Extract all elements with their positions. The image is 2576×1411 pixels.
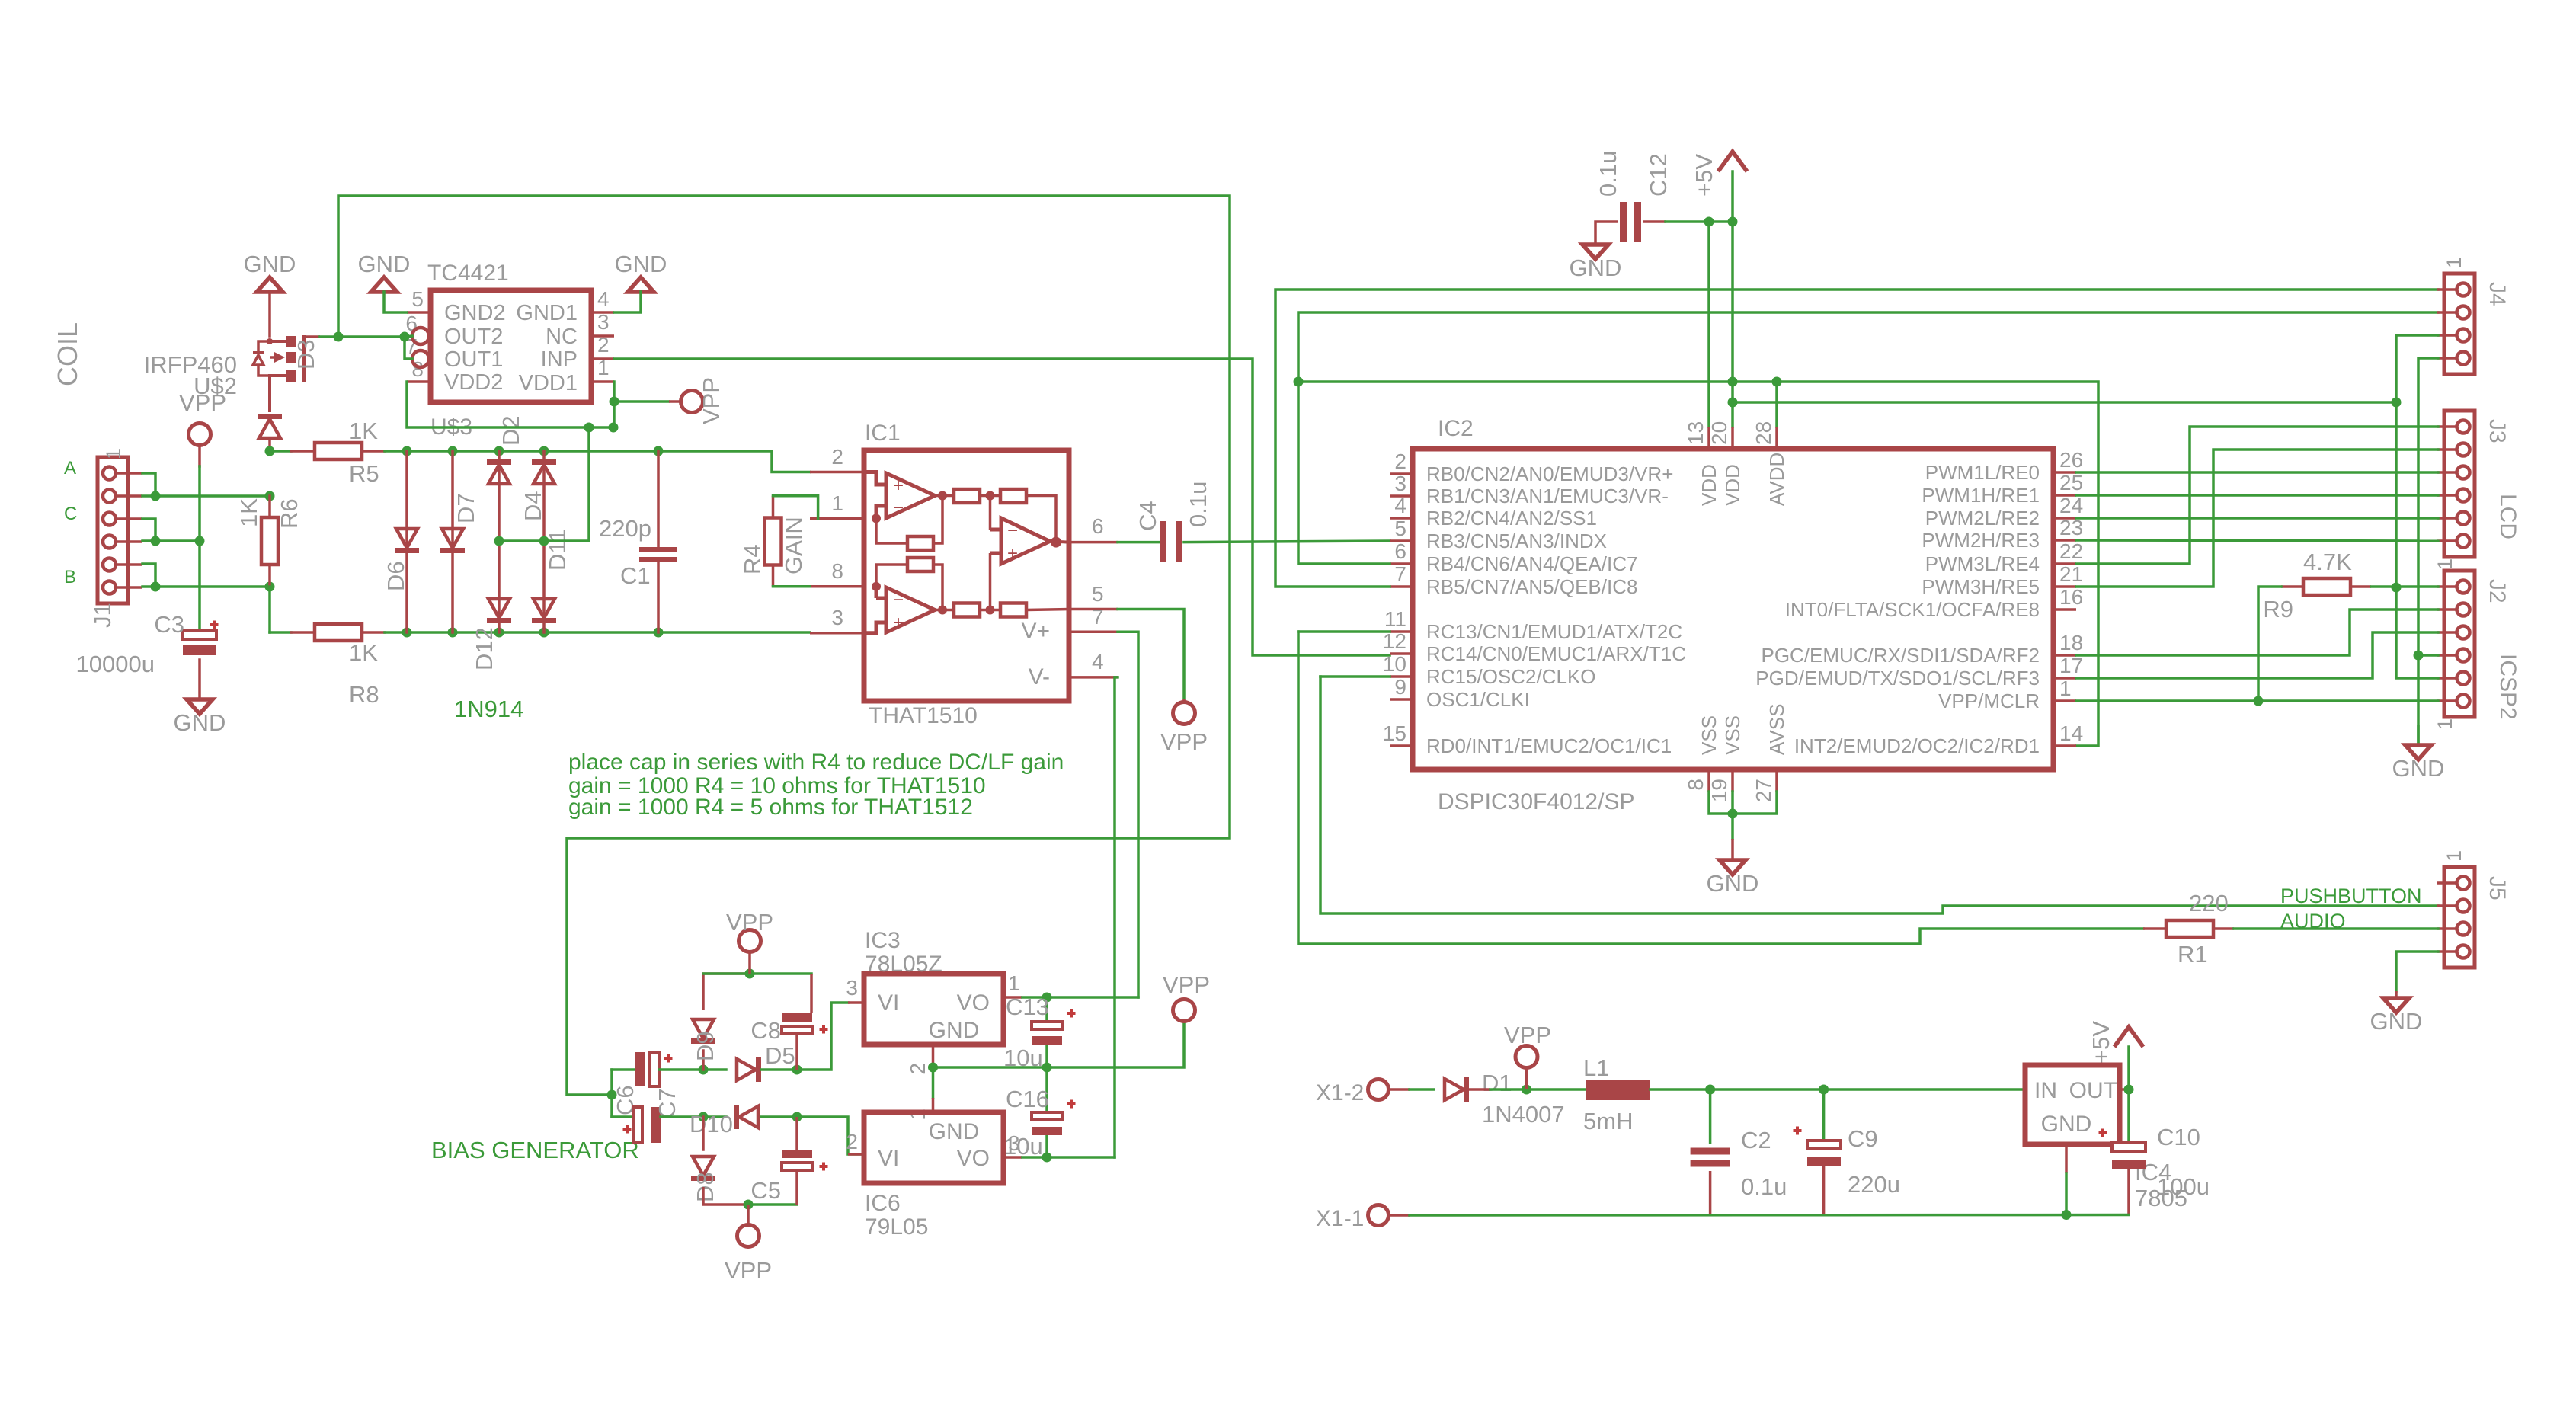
- wire C8 top: [810, 974, 813, 1013]
- svg-text:X1-2: X1-2: [1316, 1080, 1364, 1105]
- wire D8 bottom: [703, 1187, 748, 1205]
- svg-text:PWM3H/RE5: PWM3H/RE5: [1922, 575, 2040, 598]
- capacitor C5: [782, 1150, 812, 1158]
- pin 3 stub: [810, 632, 864, 635]
- wire J1 pin6 row B: [142, 585, 270, 588]
- junction: [151, 491, 161, 501]
- wire D8 top: [702, 1117, 705, 1150]
- junction: [1042, 993, 1052, 1003]
- svg-text:0.1u: 0.1u: [1741, 1173, 1787, 1200]
- svg-text:4: 4: [597, 287, 610, 311]
- svg-text:PGD/EMUD/TX/SDO1/SCL/RF3: PGD/EMUD/TX/SDO1/SCL/RF3: [1755, 667, 2040, 690]
- svg-text:RC15/OSC2/CLKO: RC15/OSC2/CLKO: [1426, 665, 1596, 688]
- svg-text:VSS: VSS: [1698, 715, 1720, 755]
- wire C12 right: [1643, 220, 1666, 223]
- svg-text:27: 27: [1752, 779, 1775, 802]
- ground GND: [1582, 245, 1608, 259]
- capacitor C2: [1691, 1148, 1730, 1167]
- pin 3 stub IC6: [1003, 1156, 1022, 1159]
- capacitor C1: [639, 547, 677, 562]
- junction: [2392, 398, 2402, 408]
- junction: [1294, 377, 1304, 387]
- svg-text:IN: IN: [2034, 1078, 2057, 1103]
- wire R6 to R8 row: [268, 587, 271, 632]
- svg-text:INP: INP: [541, 347, 578, 372]
- wire J4 pin3 to J2 pin5: [2396, 335, 2438, 678]
- capacitor C8: [782, 1013, 812, 1022]
- wire C13 bottom: [1045, 1045, 1048, 1067]
- svg-text:25: 25: [2059, 471, 2083, 494]
- svg-text:3: 3: [1394, 472, 1406, 495]
- svg-text:79L05: 79L05: [865, 1214, 928, 1240]
- svg-text:D8: D8: [692, 1172, 718, 1202]
- wire IC2 pin10 to J5 PUSHBUTTON: [1320, 677, 2438, 913]
- svg-text:COIL: COIL: [52, 322, 83, 386]
- wire bottom rail: [1410, 1214, 2129, 1217]
- junction: [448, 628, 458, 638]
- svg-text:RB3/CN5/AN3/INDX: RB3/CN5/AN3/INDX: [1426, 530, 1607, 552]
- wire pin5 to VPP: [1118, 610, 1184, 699]
- wire IC2 pin17 to J2 pin3: [2076, 632, 2438, 678]
- svg-text:TC4421: TC4421: [427, 261, 509, 286]
- wire to C6: [612, 1068, 634, 1071]
- ground GND: [628, 277, 654, 292]
- wire vpp stub: [198, 446, 201, 466]
- junction: [745, 969, 755, 979]
- svg-text:1: 1: [102, 448, 125, 459]
- wire R4 top to pin1: [773, 496, 818, 519]
- svg-text:3: 3: [831, 606, 843, 629]
- wire VSS pin19: [1731, 792, 1734, 814]
- pin 10 RC15/OSC2/CLKO: [1390, 675, 1413, 678]
- wire J2 pin4 link: [2418, 654, 2438, 657]
- junction: [400, 332, 410, 342]
- wire IC2 pin24 to J3 pin5: [2076, 517, 2438, 520]
- svg-text:C8: C8: [750, 1017, 781, 1044]
- wire IC2 pin18 to J2 pin2: [2076, 610, 2438, 655]
- internal resistor r4: [1000, 603, 1026, 617]
- ic IC4 7805: [2025, 1065, 2120, 1144]
- svg-text:1: 1: [2059, 677, 2072, 700]
- junction: [2254, 696, 2264, 706]
- resistor R5: [315, 443, 362, 459]
- junction: [151, 536, 161, 546]
- svg-text:C10: C10: [2157, 1124, 2200, 1150]
- diode D11: [532, 599, 556, 623]
- junction: [1728, 217, 1738, 227]
- connector J5: [2444, 867, 2475, 968]
- capacitor C4: [1160, 521, 1182, 562]
- wire D7 branch: [451, 451, 454, 632]
- stub R4 top: [772, 496, 775, 518]
- wire D10 to C5 node: [761, 1115, 797, 1118]
- svg-text:220p: 220p: [599, 515, 651, 542]
- svg-text:8: 8: [1684, 779, 1707, 791]
- wire R9 right to J2 pin1: [2371, 585, 2438, 588]
- svg-text:R8: R8: [349, 681, 379, 708]
- svg-text:OUT2: OUT2: [444, 325, 503, 349]
- pin 3 stub IC3: [848, 1001, 864, 1004]
- svg-text:10000u: 10000u: [76, 651, 155, 677]
- connector J3: [2444, 411, 2475, 557]
- pin 4 RB2/CN4/AN2/SS1: [1390, 517, 1413, 520]
- stub X1-2: [1389, 1088, 1410, 1091]
- wire VDD1 down: [613, 382, 616, 427]
- supply VPP (psu): [1525, 1067, 1528, 1089]
- pad X1-1: [1368, 1205, 1389, 1226]
- svg-text:PWM2H/RE3: PWM2H/RE3: [1922, 529, 2040, 552]
- wire to VDD pin13: [1707, 222, 1710, 427]
- junction: [1042, 1153, 1052, 1163]
- wire C6 to D9 node: [659, 1068, 703, 1071]
- svg-text:D5: D5: [765, 1042, 795, 1069]
- svg-text:PWM1L/RE0: PWM1L/RE0: [1925, 461, 2040, 484]
- wire out2 tie: [405, 336, 412, 337]
- svg-text:C9: C9: [1848, 1125, 1878, 1152]
- svg-text:INT2/EMUD2/OC2/IC2/RD1: INT2/EMUD2/OC2/IC2/RD1: [1794, 734, 2040, 757]
- stub R9 right: [2350, 585, 2371, 588]
- internal wiring middle: [876, 496, 942, 610]
- svg-text:OUT: OUT: [2069, 1078, 2117, 1103]
- junction: [1522, 1085, 1531, 1095]
- wire IC3 gnd to IC6 gnd: [932, 1067, 935, 1098]
- diode D4: [532, 459, 556, 484]
- pin 7 RB5/CN7/AN5/QEB/IC8: [1390, 585, 1413, 588]
- wire VDD2 to VDD1 rail: [407, 382, 613, 427]
- svg-text:13: 13: [1684, 421, 1707, 445]
- svg-text:VPP: VPP: [726, 909, 773, 936]
- stub R5 left: [291, 450, 315, 453]
- connector J1: [98, 457, 128, 603]
- svg-text:+: +: [893, 475, 904, 496]
- svg-text:D3: D3: [293, 339, 319, 370]
- wire out1 tie: [405, 337, 412, 359]
- wire C5 top: [795, 1117, 798, 1150]
- pin 5 RB3/CN5/AN3/INDX: [1390, 539, 1413, 542]
- diode D6: [395, 529, 419, 553]
- pin 26 PWM1L/RE0: [2053, 471, 2076, 474]
- svg-text:D9: D9: [692, 1031, 718, 1061]
- svg-text:NC: NC: [546, 325, 578, 349]
- internal resistor r2: [1000, 489, 1026, 503]
- junction: [1705, 1085, 1715, 1095]
- pin 3 RB1/CN3/AN1/EMUC3/VR-: [1390, 494, 1413, 498]
- wire C5 bottom: [795, 1170, 798, 1205]
- junction: [195, 536, 205, 546]
- svg-text:RB2/CN4/AN2/SS1: RB2/CN4/AN2/SS1: [1426, 507, 1597, 530]
- svg-text:C1: C1: [620, 562, 651, 589]
- wire drain to gnd: [268, 292, 271, 336]
- svg-text:GND: GND: [2041, 1112, 2092, 1137]
- svg-text:2: 2: [1394, 450, 1406, 473]
- wire +5V rail to AVDD: [1298, 382, 1777, 427]
- wire to VPP: [614, 400, 669, 403]
- junction: [265, 491, 275, 501]
- svg-text:R5: R5: [349, 460, 379, 487]
- svg-text:OUT1: OUT1: [444, 347, 503, 372]
- svg-text:2: 2: [831, 445, 843, 469]
- pin 22 PWM3L/RE4: [2053, 562, 2076, 565]
- svg-text:R9: R9: [2263, 596, 2293, 622]
- stub R5 right: [362, 450, 385, 453]
- junction: [448, 446, 458, 456]
- stub X1-1: [1389, 1214, 1410, 1217]
- svg-text:X1-1: X1-1: [1316, 1206, 1364, 1231]
- wire D8 to C5 bottom: [748, 1203, 797, 1206]
- svg-text:220u: 220u: [1848, 1171, 1900, 1198]
- svg-text:24: 24: [2059, 494, 2083, 517]
- capacitor C13: [1032, 1022, 1062, 1029]
- wire IC3 VO row: [1022, 996, 1138, 999]
- wire C8 bottom: [795, 1034, 798, 1070]
- wire J4 pin2 to IC2 pin6 QEA: [1298, 312, 2438, 564]
- ground GND: [2405, 745, 2431, 760]
- svg-text:18: 18: [2059, 631, 2083, 654]
- svg-text:D10: D10: [690, 1111, 733, 1137]
- junction: [928, 1063, 938, 1073]
- svg-text:100u: 100u: [2157, 1173, 2210, 1200]
- wire J1 pin4 row C: [142, 539, 200, 542]
- pin 18 PGC/EMUC/RX/SDI1/SDA/RF2: [2053, 654, 2076, 657]
- junction: [654, 628, 664, 638]
- stub R1 right: [2213, 927, 2234, 930]
- junction: [1728, 398, 1738, 408]
- wire IC6 VO row: [1022, 1156, 1115, 1159]
- wire to D5: [703, 1068, 726, 1071]
- diode D3: [258, 414, 282, 438]
- pin 11 RC13/CN1/EMUD1/ATX/T2C: [1390, 630, 1413, 633]
- supply VPP (bias top): [748, 952, 751, 974]
- wire R4 bottom to pin8: [773, 585, 811, 588]
- wire row R5 to IC1 pin2: [385, 451, 810, 472]
- pin 27 AVSS (bottom): [1775, 769, 1778, 792]
- connector J2: [2444, 571, 2475, 717]
- svg-text:1: 1: [2434, 718, 2456, 730]
- svg-text:1: 1: [2434, 558, 2456, 570]
- svg-text:GND: GND: [1707, 870, 1759, 897]
- wire D2 branch: [498, 451, 501, 541]
- svg-text:J4: J4: [2485, 282, 2510, 306]
- supply +5V (top): [1718, 152, 1747, 171]
- svg-text:D12: D12: [471, 627, 498, 670]
- wire D6 branch: [405, 451, 408, 632]
- pin 7 stub: [1069, 631, 1118, 634]
- svg-text:ICSP2: ICSP2: [2495, 654, 2520, 720]
- pin 2 stub IC3 GND: [932, 1045, 935, 1067]
- wire D9 top: [703, 974, 750, 1010]
- wire D5 to C8 node: [761, 1068, 797, 1071]
- svg-text:7: 7: [1394, 562, 1406, 586]
- diode D2: [487, 459, 511, 484]
- pin 7 OUT1 bubble: [412, 350, 429, 367]
- svg-text:8: 8: [831, 559, 843, 583]
- wire C9 bottom: [1822, 1166, 1826, 1215]
- svg-text:220: 220: [2189, 890, 2229, 917]
- pin 1 stub IC3: [1003, 996, 1022, 999]
- junction: [539, 628, 549, 638]
- svg-text:+5V: +5V: [2088, 1021, 2114, 1064]
- pin 19 VSS (bottom): [1731, 769, 1734, 792]
- internal wiring top: [935, 496, 1056, 538]
- svg-text:VO: VO: [957, 1146, 990, 1171]
- ic IC6 79L05: [864, 1112, 1003, 1183]
- internal wiring bottom: [935, 553, 1069, 610]
- svg-text:VPP: VPP: [1504, 1022, 1551, 1048]
- svg-text:IC2: IC2: [1438, 416, 1474, 441]
- wire C10 bottom: [2127, 1169, 2130, 1215]
- svg-text:GAIN: GAIN: [780, 517, 807, 574]
- svg-text:VPP: VPP: [698, 377, 725, 424]
- svg-text:PUSHBUTTON: PUSHBUTTON: [2280, 885, 2422, 907]
- junction: [402, 446, 412, 456]
- transistor U$2 IRFP460: [253, 335, 306, 412]
- supply VPP (left): [189, 424, 211, 446]
- pin 2 stub: [810, 471, 864, 474]
- pin 1 VPP/MCLR: [2053, 699, 2076, 702]
- junction: [744, 1200, 754, 1210]
- svg-text:C4: C4: [1134, 501, 1161, 531]
- stub D1 right: [1469, 1088, 1490, 1091]
- pin 2 stub IC6: [848, 1153, 864, 1156]
- svg-text:22: 22: [2059, 539, 2083, 563]
- svg-text:R6: R6: [276, 498, 302, 529]
- capacitor C7: [633, 1107, 642, 1143]
- svg-text:GND: GND: [615, 251, 667, 277]
- pin 9 OSC1/CLKI: [1390, 698, 1413, 701]
- svg-text:PWM1H/RE1: PWM1H/RE1: [1922, 484, 2040, 507]
- capacitor C10: [2112, 1143, 2146, 1151]
- wire J1 pin3: [142, 519, 155, 541]
- svg-text:VI: VI: [878, 1146, 899, 1171]
- svg-text:D11: D11: [544, 529, 571, 571]
- wire GND rail to VPP: [933, 1022, 1185, 1067]
- ic IC2 DSPIC30F4012: [1413, 449, 2053, 769]
- svg-text:J2: J2: [2485, 579, 2510, 603]
- wire IC2 pin21 to J3 pin2: [2076, 450, 2438, 587]
- svg-text:VO: VO: [957, 990, 990, 1016]
- svg-text:IC6: IC6: [865, 1191, 901, 1216]
- svg-text:−: −: [893, 498, 904, 518]
- svg-text:GND: GND: [2392, 755, 2445, 782]
- svg-text:3: 3: [846, 976, 858, 1000]
- capacitor C9: [1807, 1141, 1841, 1149]
- svg-text:VDD1: VDD1: [519, 371, 578, 395]
- wire to R5: [270, 450, 291, 453]
- svg-text:RC13/CN1/EMUD1/ATX/T2C: RC13/CN1/EMUD1/ATX/T2C: [1426, 620, 1682, 643]
- stub 7805 out: [2120, 1088, 2129, 1091]
- svg-text:1: 1: [1008, 971, 1020, 995]
- wire row R8 to IC1 pin3: [385, 631, 810, 634]
- wire 7805 gnd down: [2065, 1173, 2068, 1215]
- wire C10 top: [2127, 1089, 2130, 1143]
- wire J1 pin2 row A: [142, 494, 270, 498]
- svg-text:D1: D1: [1482, 1070, 1512, 1096]
- svg-text:17: 17: [2059, 654, 2083, 677]
- svg-text:GND: GND: [358, 251, 411, 277]
- op-amp A (top): [864, 472, 935, 519]
- svg-text:VI: VI: [878, 990, 899, 1016]
- supply VPP (regulators): [1173, 1000, 1195, 1022]
- svg-text:RB0/CN2/AN0/EMUD3/VR+: RB0/CN2/AN0/EMUD3/VR+: [1426, 462, 1673, 485]
- svg-text:L1: L1: [1583, 1054, 1609, 1081]
- wire D11 branch: [542, 541, 546, 632]
- junction: [607, 1090, 617, 1100]
- resistor R9: [2303, 578, 2350, 595]
- svg-text:1: 1: [2443, 257, 2466, 268]
- junction: [2062, 1210, 2072, 1220]
- svg-text:9: 9: [1394, 675, 1406, 699]
- svg-text:DSPIC30F4012/SP: DSPIC30F4012/SP: [1438, 789, 1634, 814]
- svg-text:C3: C3: [154, 611, 184, 638]
- wire to C7: [612, 1115, 633, 1118]
- svg-text:2: 2: [906, 1063, 930, 1075]
- wire D12 branch: [498, 541, 501, 632]
- wire C13 top: [1045, 997, 1048, 1022]
- wire to IC3 VI: [797, 1003, 848, 1070]
- wire to VDD pin20: [1731, 222, 1734, 427]
- stub 7805 gnd: [2065, 1144, 2068, 1173]
- svg-text:VPP: VPP: [1160, 728, 1208, 755]
- pin 25 PWM1H/RE1: [2053, 494, 2076, 497]
- svg-text:VDD: VDD: [1721, 464, 1744, 506]
- wire C4 to IC2 pin5: [1184, 541, 1390, 542]
- junction: [1728, 809, 1738, 819]
- wire J1 pin1: [142, 473, 155, 496]
- resistor R1: [2166, 920, 2213, 937]
- svg-text:0.1u: 0.1u: [1185, 482, 1211, 527]
- svg-text:GND: GND: [1570, 254, 1622, 281]
- svg-text:RB5/CN7/AN5/QEB/IC8: RB5/CN7/AN5/QEB/IC8: [1426, 575, 1637, 598]
- diode D1: [1445, 1077, 1469, 1102]
- svg-text:D6: D6: [382, 561, 409, 591]
- stub R1 left: [2143, 927, 2166, 930]
- svg-text:V-: V-: [1029, 664, 1050, 690]
- stub R4 bottom: [772, 565, 775, 587]
- wire vpp to C3: [198, 466, 201, 634]
- wire C16 top: [1045, 1067, 1048, 1112]
- resistor R4: [765, 518, 782, 565]
- svg-text:PGC/EMUC/RX/SDI1/SDA/RF2: PGC/EMUC/RX/SDI1/SDA/RF2: [1761, 644, 2040, 667]
- svg-text:+: +: [1007, 543, 1018, 564]
- svg-text:6: 6: [1394, 539, 1406, 563]
- internal resistor r1: [954, 489, 980, 503]
- svg-text:2: 2: [846, 1130, 858, 1153]
- svg-text:1K: 1K: [349, 418, 378, 444]
- svg-text:1N4007: 1N4007: [1482, 1101, 1565, 1128]
- wire IC2 pin25 to J3 pin4: [2076, 494, 2438, 497]
- svg-text:AVDD: AVDD: [1765, 453, 1788, 506]
- junction: [654, 446, 664, 456]
- wire +5V to J4 pin3 rail: [1733, 401, 2396, 404]
- junction: [334, 332, 344, 342]
- wire +5V rail to pin14: [1777, 382, 2098, 746]
- supply VPP (driver): [669, 400, 680, 403]
- wire D9 bottom: [702, 1051, 705, 1070]
- svg-text:VPP/MCLR: VPP/MCLR: [1938, 690, 2040, 712]
- wire to gnd: [1731, 814, 1734, 839]
- svg-text:AUDIO: AUDIO: [2280, 910, 2346, 933]
- svg-text:GND: GND: [174, 709, 226, 736]
- pin 4 stub: [1069, 676, 1118, 679]
- junction: [539, 536, 549, 546]
- svg-text:10: 10: [1383, 652, 1406, 676]
- svg-text:OSC1/CLKI: OSC1/CLKI: [1426, 688, 1530, 711]
- diode D8: [691, 1157, 715, 1181]
- svg-text:1K: 1K: [235, 498, 262, 527]
- svg-text:C12: C12: [1645, 153, 1672, 197]
- wire pin4 to gnd: [614, 292, 641, 312]
- stub R8 right: [362, 631, 385, 634]
